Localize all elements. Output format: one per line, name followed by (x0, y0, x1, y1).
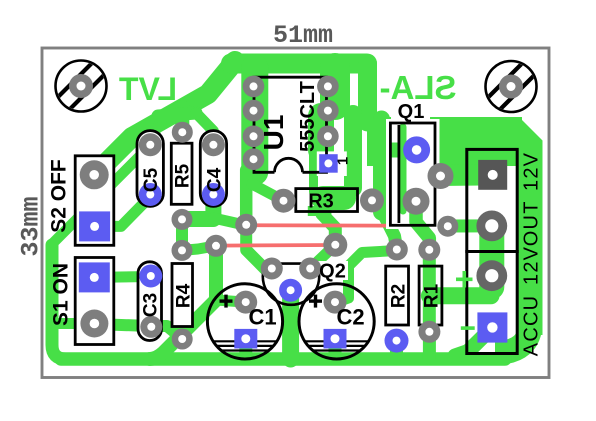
wire below R3 (308, 206, 332, 216)
wire Q1 band to R2 top (382, 210, 397, 250)
pad R5 bottom (172, 209, 193, 230)
wire ACCU blue to rail (455, 327, 492, 356)
ACCU minus mark (461, 326, 475, 330)
wire right side column (344, 114, 362, 188)
svg-text:R1: R1 (422, 283, 443, 308)
wire C4 bottom to R5 bottom (183, 196, 213, 219)
ACCU plus mark (456, 277, 473, 281)
pad R4 top (172, 240, 193, 261)
pad C4 top (202, 133, 225, 156)
wire C2 plus to R2 top (337, 251, 397, 303)
pad C2 plus (324, 291, 347, 314)
pad jumper 2 right (323, 233, 347, 257)
pad Q1 top blue (403, 136, 430, 163)
wire down to Q2 left pad (246, 225, 272, 269)
svg-text:R5: R5 (173, 163, 194, 188)
pad R1 bottom (418, 321, 440, 343)
transistor Q2 outline (263, 264, 319, 305)
pad Q2 blue (279, 279, 302, 302)
pad C4 bottom blue (202, 183, 225, 206)
wire U1 right column top (320, 68, 350, 105)
mounting hole top-left (56, 58, 107, 115)
wire S1 pad to C3 bottom to R4 bottom (94, 324, 182, 339)
svg-text:C4: C4 (205, 167, 226, 192)
wire R5 top stub (175, 107, 189, 131)
wire Q1 bottom to R1 top (416, 201, 429, 250)
wire right pour column (500, 117, 543, 335)
capacitor C3 body (138, 262, 162, 341)
wire horiz to C4 (158, 113, 196, 116)
pad Q2 right (299, 258, 321, 280)
wire S1 blue to C3 top (94, 271, 151, 283)
wire diagonal rail to C5 top (53, 146, 150, 244)
pin1 pad margin U1 (317, 151, 347, 176)
pad jumper 1 right (437, 216, 458, 237)
wire bundle from S2 pad to top pour (94, 61, 235, 175)
pad ACCU round (476, 260, 507, 291)
wire Q1 middle to OUT square pad (439, 164, 493, 186)
wire U1 left column (241, 68, 268, 172)
pad C3 bottom (140, 316, 162, 338)
wire C1 blue to rail (239, 340, 252, 359)
pad C1 plus (234, 291, 257, 314)
capacitor C1 minus stripes (214, 341, 277, 350)
pad R2 top (386, 239, 408, 261)
jumper wire red 2 (216, 243, 335, 247)
pad OUT square (478, 160, 507, 190)
wire R1 to ACCU pad (429, 287, 491, 304)
capacitor C2 minus stripes (305, 341, 368, 350)
jumper wire red 1 (246, 223, 448, 227)
wire R4 top to jumper pad (182, 246, 216, 251)
pad Q1 bottom (403, 188, 430, 215)
switch S1 body (75, 258, 114, 345)
transistor Q1 body white halo (386, 119, 440, 229)
wire strip left of pin1 (309, 148, 318, 192)
wire diag to R3 left (252, 184, 284, 201)
label patch Q1 (391, 100, 430, 121)
connector OUT body (467, 149, 517, 251)
wire R2 blue to rail (390, 341, 403, 358)
svg-text:SLA-: SLA- (380, 69, 457, 106)
pad ACCU blue square (477, 312, 507, 342)
pad C3 top blue (139, 265, 162, 288)
transistor Q1 inner line (397, 125, 400, 223)
pad jumper 1 left (235, 214, 257, 236)
pad R2 bottom blue (385, 329, 409, 353)
svg-text:R3: R3 (308, 191, 334, 213)
wire left rail (52, 245, 66, 359)
pad R3 right (360, 188, 384, 212)
svg-text:C3: C3 (141, 293, 162, 317)
resistor R5 body (171, 143, 192, 204)
pad jumper 2 left (205, 235, 227, 257)
pad C1 minus blue (234, 329, 257, 349)
pad S1 blue (79, 262, 110, 292)
pad OUT round (476, 211, 507, 242)
capacitor C5 body (137, 131, 163, 207)
wire C5 top stub (150, 120, 160, 145)
wire top pour bar (231, 54, 367, 74)
wire jumper pad down to rail (150, 246, 216, 359)
wire strip inside Q1 (400, 127, 407, 211)
resistor R2 body (386, 266, 409, 325)
wire C4 bottom junction to jumper pad 1 (213, 218, 246, 225)
wire under R1 (423, 250, 436, 332)
capacitor C1 outline (207, 284, 282, 359)
svg-text:1: 1 (335, 157, 352, 165)
op-amp U1 outline (254, 77, 327, 172)
pad R5 top (172, 122, 193, 143)
wire U1 right mass (308, 116, 334, 150)
capacitor C4 body (200, 131, 226, 207)
wire jumper pad 3 to Q2 right pad (310, 245, 335, 269)
resistor R4 body (172, 264, 193, 327)
svg-text:U1: U1 (258, 115, 289, 151)
resistor R1 body (419, 266, 442, 325)
pad R1 top (418, 239, 440, 261)
pad C2 minus blue (324, 329, 347, 349)
pad S2 blue (79, 211, 110, 241)
transistor Q1 outline (390, 123, 435, 225)
svg-text:51mm: 51mm (273, 21, 333, 50)
svg-text:C5: C5 (141, 167, 162, 192)
switch S2 body (75, 156, 114, 246)
svg-text:33mm: 33mm (17, 196, 46, 256)
svg-text:Q2: Q2 (319, 261, 346, 283)
wire R5 bottom to R4 top (176, 219, 188, 250)
wire Q2 blue to rail (282, 290, 299, 359)
svg-text:LVT: LVT (119, 71, 178, 107)
wire C1 plus stub (216, 300, 246, 302)
pad S2 top (80, 160, 109, 189)
pad R3 left (272, 189, 296, 213)
wire diag to jumper pad 3 (322, 214, 335, 245)
pad C5 top (139, 133, 162, 156)
wire bottom ground rail (61, 352, 505, 366)
mounting hole top-right (486, 58, 537, 115)
capacitor C2 outline (299, 284, 374, 359)
svg-text:S1 ON: S1 ON (50, 263, 73, 326)
capacitor C1 plus mark (220, 295, 233, 308)
svg-text:R2: R2 (389, 284, 410, 308)
wire OUT pad to ACCU pad (479, 226, 504, 287)
pad R4 bottom (172, 329, 193, 350)
svg-text:C2: C2 (336, 305, 364, 330)
pad Q1 middle (428, 163, 454, 189)
wire top-right pour band (367, 117, 522, 166)
svg-text:S2 OFF: S2 OFF (48, 159, 71, 233)
wire S1 pad stub (52, 318, 92, 329)
wire U1 left narrow down (240, 170, 253, 225)
resistor R3 body (296, 189, 358, 212)
wire Q1 left band (373, 119, 390, 212)
wire C2 blue to rail (329, 340, 342, 359)
wire S2 blue to C5 bottom (95, 197, 151, 227)
svg-text:555CLT: 555CLT (297, 81, 319, 152)
wire pour step down (358, 64, 377, 123)
pad C5 bottom blue (139, 183, 162, 206)
svg-text:OUT 12V: OUT 12V (521, 152, 543, 246)
svg-text:R4: R4 (174, 283, 195, 308)
capacitor C2 plus mark (309, 295, 322, 308)
wire R1 bottom to rail (423, 332, 436, 358)
wire Q1 blue pad strip (391, 143, 410, 158)
label patch Q2 (317, 261, 348, 280)
pad U1 pin 1 blue square (319, 154, 338, 173)
wire blob under R3 (323, 186, 344, 210)
board outline (42, 48, 549, 378)
svg-text:ACCU 12V: ACCU 12V (521, 246, 543, 356)
pad U1 pin row right (317, 76, 339, 148)
connector ACCU body (467, 252, 517, 354)
wire C4 top stub (196, 113, 213, 145)
pad U1 pin row left (243, 76, 265, 170)
wire pour corner bottom-right (495, 322, 531, 353)
wire jumper pad 4 to OUT pad (448, 219, 492, 232)
svg-text:C1: C1 (248, 305, 276, 330)
pad S1 bottom (80, 310, 108, 338)
pad Q2 left (261, 258, 283, 280)
